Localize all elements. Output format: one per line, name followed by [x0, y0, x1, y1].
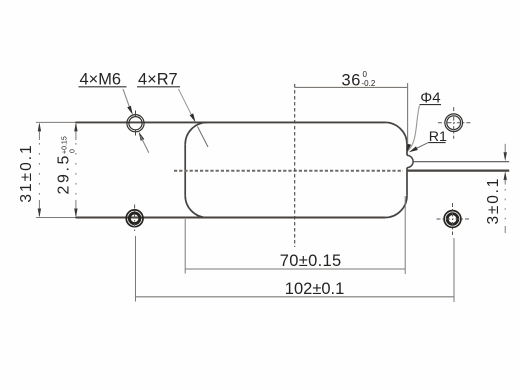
hole bottom-right crosshair: [437, 203, 470, 235]
slot corner arc bottom-right R7: [385, 196, 407, 218]
dimension 3 upper stub: [504, 144, 506, 154]
hole bottom-left inner circle: [129, 213, 140, 224]
label R1 underline: [428, 142, 445, 144]
slot corner arc top-left R7: [185, 122, 207, 144]
svg-text:0: 0: [70, 149, 77, 153]
svg-text:31±0.1: 31±0.1: [18, 143, 35, 202]
slot corner arc bottom-left R7: [185, 196, 207, 218]
tab bottom edge: [407, 169, 509, 171]
dimension 70 extension left: [184, 219, 186, 274]
leader R1: [413, 143, 428, 150]
leader 4xM6: [123, 89, 131, 111]
dimension 29.5 text: [56, 136, 77, 194]
svg-text:70±0.15: 70±0.15: [280, 252, 342, 270]
extension line left bottom: [36, 217, 76, 219]
dimension 102 extension left: [135, 236, 137, 302]
hole bottom-left outer circle: [126, 210, 143, 227]
svg-text:4×R7: 4×R7: [138, 71, 178, 89]
slot corner arc top-right R7: [385, 122, 407, 144]
svg-text:+0.15: +0.15: [62, 136, 69, 154]
dimension 3 text: [485, 177, 502, 225]
svg-text:0: 0: [363, 70, 368, 79]
slot right edge lower: [406, 168, 408, 196]
leader 4xM6 arrow upper: [127, 106, 133, 115]
dimension 36 line: [295, 86, 408, 88]
svg-text:3±0.1: 3±0.1: [485, 177, 502, 225]
leader 4xR7 arrow: [190, 113, 196, 122]
hole phi4 crosshair: [438, 107, 472, 139]
label phi4 underline: [420, 104, 442, 106]
dimension 36 extension right: [407, 83, 409, 144]
leader 4xM6 arrow lower: [139, 132, 145, 141]
hole bottom-right inner circle: [447, 214, 458, 225]
dimension 3 lower stub: [504, 179, 506, 185]
leader phi4: [408, 106, 420, 152]
leader phi4 arrow: [407, 144, 411, 153]
label 4xM6 underline: [79, 86, 127, 88]
svg-text:29.5: 29.5: [56, 153, 73, 195]
dimension 29.5 arrows: [74, 122, 77, 131]
slot right edge upper: [406, 144, 408, 155]
svg-text:4×M6: 4×M6: [80, 71, 121, 89]
dimension 102 line: [136, 296, 455, 298]
hole M6 top-left outer circle: [127, 115, 144, 132]
dimension 31 line: [38, 124, 40, 216]
hole bottom-right outer circle: [444, 211, 461, 228]
part top edge (line A): [76, 121, 386, 123]
part bottom edge (line B): [76, 217, 386, 219]
leader 4xR7: [179, 89, 194, 119]
hole M6 top-left inner circle: [129, 117, 142, 130]
horizontal centerline: [174, 170, 403, 172]
dimension 3 dotted continuation: [504, 189, 506, 226]
hole phi4 top-right outer circle: [445, 114, 463, 132]
svg-text:36: 36: [342, 71, 361, 89]
hole bottom-left vertical crosshair: [134, 205, 136, 234]
dimension 29.5 line: [75, 124, 77, 216]
slot left edge: [184, 144, 186, 195]
dimension 102 extension right: [453, 238, 455, 302]
dimension 3 upper arrow: [504, 152, 507, 161]
dimension 31 arrows: [38, 122, 41, 131]
leader 4xR7 tail: [198, 127, 209, 148]
dimension 70 extension right: [404, 196, 406, 274]
label 4xR7 underline: [137, 86, 180, 88]
hole M6 crosshair ticks: [135, 111, 137, 136]
svg-text:102±0.1: 102±0.1: [285, 280, 345, 298]
leader R1 arrow: [409, 146, 418, 152]
leader 4xM6 tail: [141, 136, 149, 153]
tab top edge: [413, 161, 509, 163]
notch semicircle: [407, 155, 413, 167]
svg-text:-0.2: -0.2: [362, 79, 376, 88]
extension line left top: [36, 121, 76, 123]
hole phi4 top-right inner circle: [447, 116, 461, 130]
dimension 70 line: [185, 268, 405, 270]
vertical centerline: [294, 84, 296, 247]
dimension 31 text: [18, 143, 35, 202]
dimension 3 lower arrow: [504, 171, 507, 180]
svg-text:Φ4: Φ4: [420, 90, 440, 107]
